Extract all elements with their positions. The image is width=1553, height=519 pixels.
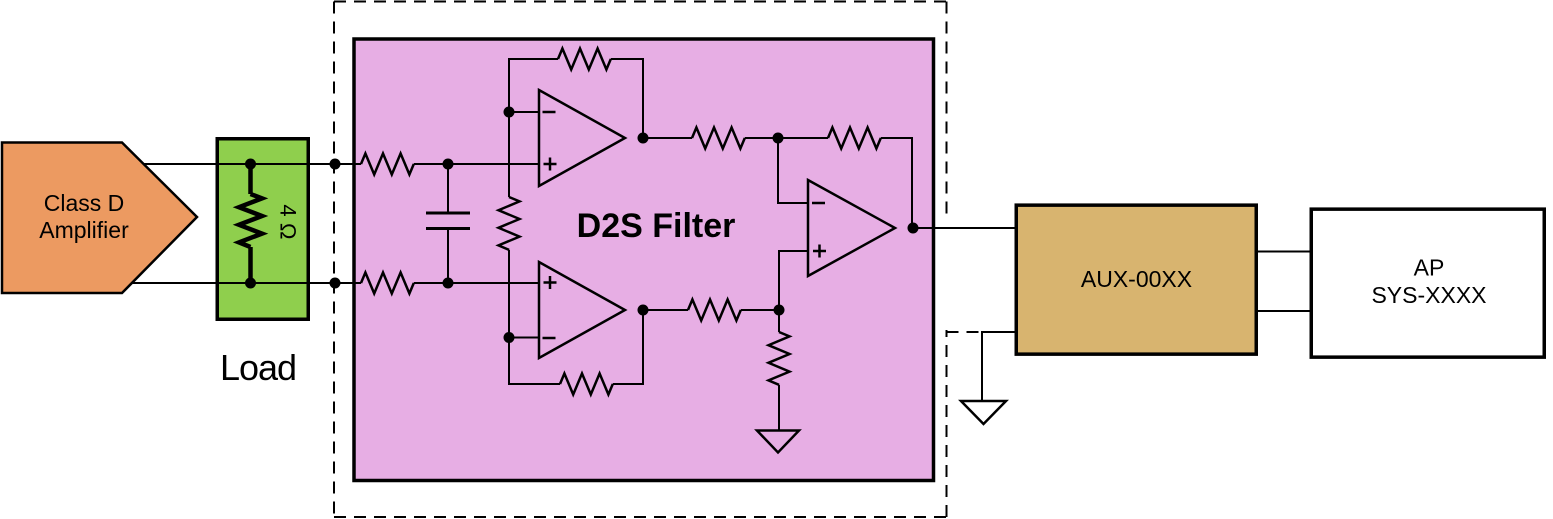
- svg-text:Class D: Class D: [44, 190, 125, 216]
- svg-text:AUX-00XX: AUX-00XX: [1081, 266, 1192, 292]
- svg-text:4 Ω: 4 Ω: [276, 204, 301, 239]
- svg-text:D2S Filter: D2S Filter: [577, 207, 736, 245]
- svg-text:SYS-XXXX: SYS-XXXX: [1371, 282, 1486, 308]
- svg-text:Load: Load: [220, 347, 296, 388]
- svg-text:AP: AP: [1414, 255, 1445, 281]
- svg-text:Amplifier: Amplifier: [39, 217, 129, 243]
